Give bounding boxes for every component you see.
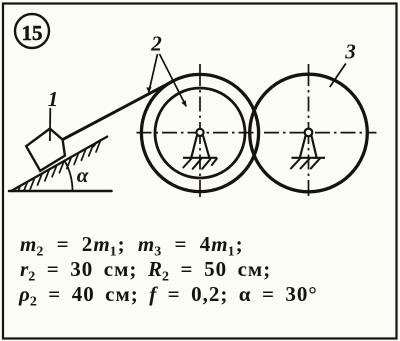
label 2 leader lines: [149, 54, 187, 107]
incline surface line: [12, 137, 108, 191]
svg-text:15: 15: [22, 21, 43, 45]
ground line disk 3: [292, 157, 326, 159]
pulley 2 inner circle: [155, 88, 245, 178]
ground hatching pulley 2: [183, 159, 217, 169]
incline top hook stroke: [94, 139, 104, 147]
svg-text:m2 = 2m1; m3 = 4m1;: m2 = 2m1; m3 = 4m1;: [20, 232, 244, 260]
ground hatching disk 3: [291, 158, 320, 168]
pin circle disk 3: [305, 129, 313, 137]
svg-text:ρ2 = 40 см; f = 0,2; α = 30°: ρ2 = 40 см; f = 0,2; α = 30°: [18, 282, 318, 310]
ground line pulley 2: [183, 157, 217, 159]
svg-text:α: α: [77, 163, 89, 187]
incline hatching: [18, 141, 100, 191]
support legs disk 3: [300, 136, 317, 158]
svg-text:r2 = 30 см; R2 = 50 см;: r2 = 30 см; R2 = 50 см;: [20, 257, 271, 285]
vertical centerline pulley 2: [199, 64, 201, 197]
horizontal centerline through pulleys: [137, 132, 377, 134]
svg-text:3: 3: [344, 40, 356, 64]
label 1 leader line: [49, 108, 51, 141]
svg-text:2: 2: [150, 32, 162, 56]
rope from block to pulley: [63, 81, 173, 139]
label 3 leader line: [330, 64, 346, 88]
problem number badge circle: [15, 14, 49, 48]
block 1: [26, 129, 65, 171]
support legs pulley 2: [191, 136, 209, 158]
disk 3 circle: [250, 74, 368, 192]
svg-text:1: 1: [48, 87, 59, 111]
leader arrowheads: [146, 87, 186, 106]
pulley 2 outer circle: [141, 74, 258, 191]
angle arc: [65, 161, 73, 191]
vertical centerline disk 3: [308, 64, 310, 196]
pin circle pulley 2: [196, 129, 203, 136]
baseline: [9, 190, 112, 193]
